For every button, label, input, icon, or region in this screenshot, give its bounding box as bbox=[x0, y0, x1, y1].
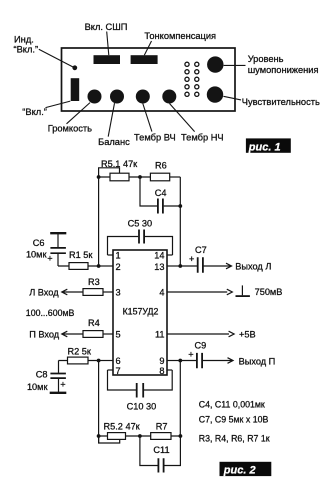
svg-text:Тембр ВЧ: Тембр ВЧ bbox=[134, 133, 176, 143]
svg-text:750мВ: 750мВ bbox=[255, 287, 283, 297]
svg-text:C7: C7 bbox=[195, 245, 207, 255]
svg-text:C4, C11 0,001мк: C4, C11 0,001мк bbox=[199, 399, 265, 409]
resistor R5.2 47к bbox=[104, 422, 141, 440]
svg-text:Чувствительность: Чувствительность bbox=[242, 97, 320, 107]
svg-text:C6: C6 bbox=[33, 238, 45, 248]
wire left rail A bbox=[98, 177, 100, 266]
pin 11 bbox=[155, 330, 229, 340]
svg-text:7: 7 bbox=[116, 366, 121, 376]
leader to switch Тонкомпенсация bbox=[144, 41, 151, 55]
svg-text:рис. 1: рис. 1 bbox=[248, 141, 281, 153]
svg-text:R6: R6 bbox=[155, 161, 167, 171]
leader to knob Баланс bbox=[108, 103, 114, 137]
node left rail top bbox=[97, 175, 101, 179]
wire C4 right bbox=[164, 205, 181, 207]
svg-text:+: + bbox=[60, 380, 65, 390]
pin 14 bbox=[154, 251, 172, 261]
pin 9 bbox=[159, 356, 180, 366]
svg-text:R2 5к: R2 5к bbox=[68, 347, 92, 357]
svg-text:“Вкл.”: “Вкл.” bbox=[14, 44, 39, 54]
svg-text:R5.2 47к: R5.2 47к bbox=[104, 422, 141, 432]
capacitor C5 30 bbox=[128, 219, 153, 244]
svg-text:9: 9 bbox=[159, 356, 164, 366]
resistor R5.1 47к bbox=[101, 159, 138, 181]
svg-text:10мк: 10мк bbox=[27, 382, 49, 392]
capacitor C8 10мк bbox=[27, 361, 66, 393]
node R7 left bbox=[138, 434, 142, 438]
svg-text:C8: C8 bbox=[36, 369, 48, 379]
wire left rail B bbox=[98, 361, 100, 444]
pin 1 bbox=[108, 251, 121, 261]
pin 8 bbox=[159, 366, 172, 376]
svg-text:Выход Л: Выход Л bbox=[235, 262, 271, 272]
svg-text:Уровень: Уровень bbox=[248, 54, 284, 64]
label Вкл. bottom bbox=[22, 107, 47, 117]
caption рис. 1 bbox=[246, 138, 291, 153]
leader to Чувствительность bbox=[223, 96, 241, 100]
capacitor C6 10мк bbox=[26, 233, 66, 266]
svg-text:10мк: 10мк bbox=[26, 249, 48, 259]
leader line to LED bbox=[39, 49, 74, 67]
slide switch Тонкомпенсация bbox=[131, 55, 158, 64]
node C4/rail bbox=[178, 204, 182, 208]
svg-text:2: 2 bbox=[116, 262, 121, 272]
svg-text:R3, R4, R6, R7 1к: R3, R4, R6, R7 1к bbox=[199, 433, 270, 443]
label Чувствительность bbox=[242, 97, 320, 107]
svg-text:5: 5 bbox=[116, 330, 121, 340]
svg-text:+: + bbox=[188, 350, 193, 360]
node R2/rail bbox=[97, 359, 101, 363]
wire C10 loop bbox=[108, 370, 173, 390]
wire bottom row bbox=[99, 435, 181, 437]
pin 5 bbox=[103, 330, 121, 340]
label Баланс bbox=[98, 137, 130, 147]
label Вкл. СШП bbox=[85, 22, 128, 32]
svg-text:“Вкл.”: “Вкл.” bbox=[22, 107, 47, 117]
pin 4 bbox=[159, 288, 227, 298]
node pin9 junction bbox=[178, 359, 182, 363]
pin 2 bbox=[99, 262, 121, 272]
arrow +5В bbox=[229, 330, 256, 340]
svg-text:К157УД2: К157УД2 bbox=[123, 307, 159, 317]
leader line to power switch bbox=[46, 101, 71, 108]
wire right rail bottom bbox=[179, 361, 181, 437]
svg-text:+: + bbox=[47, 254, 52, 264]
wire R6 right bbox=[170, 176, 181, 178]
input arrow П Вход bbox=[29, 329, 83, 339]
resistor R3 bbox=[83, 277, 103, 296]
label Тонкомпенсация bbox=[144, 31, 216, 41]
resistor R2 5к bbox=[68, 347, 92, 364]
svg-text:13: 13 bbox=[154, 262, 164, 272]
node R5.2 left bbox=[97, 434, 101, 438]
svg-text:П Вход: П Вход bbox=[29, 329, 60, 339]
indicator LED dot bbox=[72, 65, 77, 70]
label Громкость bbox=[48, 124, 92, 134]
label Тембр ВЧ bbox=[134, 133, 176, 143]
op-amp IC U1 К157УД2 bbox=[113, 250, 167, 375]
wire right rail top bbox=[179, 177, 181, 266]
wire pin13 to C7 bbox=[180, 265, 197, 267]
svg-text:Л Вход: Л Вход bbox=[29, 287, 59, 297]
svg-text:C10 30: C10 30 bbox=[127, 402, 157, 412]
wire C7 to output arrow bbox=[204, 263, 232, 269]
label Уровень шумопонижения bbox=[248, 54, 319, 75]
ventilation hole grid bbox=[185, 62, 199, 96]
resistor R7 bbox=[151, 422, 171, 440]
front panel bbox=[62, 48, 236, 111]
knob Громкость bbox=[88, 90, 102, 104]
svg-text:6: 6 bbox=[116, 356, 121, 366]
svg-text:R4: R4 bbox=[88, 318, 100, 328]
knob Чувствительность bbox=[207, 86, 223, 102]
caption рис. 2 bbox=[220, 462, 272, 477]
pin 13 bbox=[154, 262, 180, 272]
wire pin6 row bbox=[59, 360, 99, 362]
wire R5.1 row bbox=[99, 176, 151, 178]
svg-text:C4: C4 bbox=[155, 188, 167, 198]
svg-text:R3: R3 bbox=[88, 277, 100, 287]
svg-text:R1 5к: R1 5к bbox=[69, 250, 93, 260]
svg-text:R7: R7 bbox=[156, 422, 168, 432]
input arrow Л Вход bbox=[29, 287, 83, 297]
node R1/rail bbox=[97, 264, 101, 268]
svg-text:Тонкомпенсация: Тонкомпенсация bbox=[144, 31, 216, 41]
svg-text:11: 11 bbox=[155, 330, 165, 340]
svg-text:1: 1 bbox=[116, 251, 121, 261]
svg-text:Баланс: Баланс bbox=[98, 137, 130, 147]
arrow pin4 bbox=[227, 289, 233, 295]
note values line 1 bbox=[199, 399, 265, 409]
wire C5 loop bbox=[108, 237, 173, 256]
power switch bbox=[71, 78, 80, 101]
resistor R1 5к bbox=[69, 250, 93, 270]
pin 6 bbox=[99, 356, 121, 366]
wire pin9 to C9 bbox=[180, 360, 196, 362]
pin 3 bbox=[103, 288, 121, 298]
svg-text:+: + bbox=[189, 254, 194, 264]
leader to knob Тембр НЧ bbox=[170, 104, 195, 132]
knob Тембр ВЧ bbox=[136, 90, 150, 104]
svg-text:C5 30: C5 30 bbox=[128, 219, 153, 229]
wire pin2 row bbox=[58, 265, 99, 267]
note values line 3 bbox=[199, 433, 270, 443]
node R5.1/R6 junction bbox=[138, 175, 142, 179]
node pin13 junction bbox=[178, 264, 182, 268]
svg-text:C11: C11 bbox=[153, 445, 169, 455]
label Тембр НЧ bbox=[181, 133, 224, 143]
wire C4 drop bbox=[140, 177, 157, 206]
leader to knob Тембр ВЧ bbox=[143, 104, 152, 132]
resistor R4 bbox=[83, 318, 103, 337]
capacitor C4 bbox=[155, 188, 167, 214]
pin 7 bbox=[108, 366, 121, 376]
svg-text:Выход П: Выход П bbox=[239, 356, 276, 366]
svg-text:Тембр НЧ: Тембр НЧ bbox=[181, 133, 224, 143]
wire C9 to output arrow bbox=[203, 358, 233, 364]
svg-text:Инд.: Инд. bbox=[14, 35, 34, 45]
svg-text:Громкость: Громкость bbox=[48, 124, 92, 134]
wire C11 loop bbox=[140, 436, 181, 466]
label Выход Л bbox=[235, 262, 271, 272]
svg-text:C7, C9 5мк х 10В: C7, C9 5мк х 10В bbox=[199, 414, 269, 424]
svg-text:14: 14 bbox=[154, 251, 164, 261]
svg-text:3: 3 bbox=[116, 288, 121, 298]
label Выход П bbox=[239, 356, 276, 366]
leader to knob Громкость bbox=[67, 103, 91, 124]
svg-text:шумопонижения: шумопонижения bbox=[248, 65, 319, 75]
node R7 right bbox=[179, 434, 183, 438]
svg-text:8: 8 bbox=[159, 366, 164, 376]
knob Уровень шумопонижения bbox=[207, 56, 223, 72]
resistor R6 bbox=[150, 161, 169, 181]
capacitor C11 bbox=[153, 445, 169, 472]
capacitor C9 bbox=[188, 341, 206, 369]
slide switch Вкл. СШП bbox=[94, 55, 121, 64]
knob Баланс bbox=[110, 90, 124, 104]
note values line 2 bbox=[199, 414, 269, 424]
capacitor C10 30 bbox=[127, 383, 157, 412]
svg-text:4: 4 bbox=[159, 288, 164, 298]
knob Тембр НЧ bbox=[162, 90, 176, 104]
R5.2 wiper link bbox=[99, 436, 120, 443]
capacitor C7 bbox=[189, 245, 207, 273]
svg-text:рис. 2: рис. 2 bbox=[223, 465, 256, 477]
svg-text:100...600мВ: 100...600мВ bbox=[26, 308, 75, 318]
label Инд. Вкл. bbox=[14, 35, 39, 55]
svg-text:C9: C9 bbox=[195, 341, 207, 351]
R5.1 wiper link bbox=[99, 168, 120, 177]
label 100...600мВ bbox=[26, 308, 75, 318]
leader to Уровень шумопонижения bbox=[224, 64, 246, 66]
leader to switch СШП bbox=[107, 32, 109, 56]
measure point 750мВ bbox=[236, 285, 283, 297]
svg-text:Вкл. СШП: Вкл. СШП bbox=[85, 22, 128, 32]
svg-text:+5В: +5В bbox=[239, 330, 256, 340]
